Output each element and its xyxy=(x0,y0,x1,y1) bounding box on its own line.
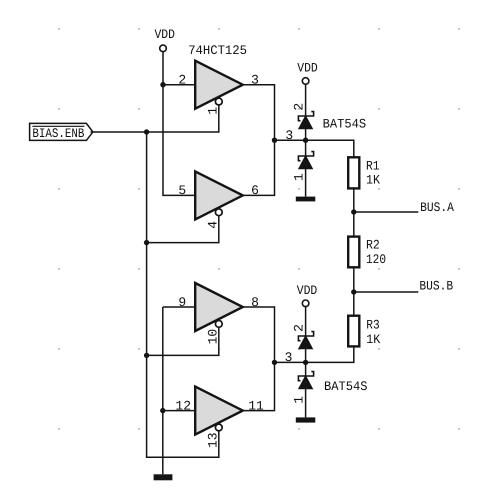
svg-text:12: 12 xyxy=(175,398,191,413)
svg-text:R2: R2 xyxy=(366,238,380,253)
svg-text:11: 11 xyxy=(248,398,264,413)
svg-text:BIAS.ENB: BIAS.ENB xyxy=(32,126,84,141)
svg-text:3: 3 xyxy=(251,73,259,88)
svg-text:8: 8 xyxy=(251,295,259,310)
svg-text:1: 1 xyxy=(292,396,307,404)
svg-text:1: 1 xyxy=(292,173,307,181)
svg-text:VDD: VDD xyxy=(297,60,318,75)
svg-text:BUS.B: BUS.B xyxy=(419,279,453,294)
svg-text:1K: 1K xyxy=(366,173,380,188)
svg-text:6: 6 xyxy=(251,183,259,198)
svg-text:1: 1 xyxy=(206,107,221,115)
svg-text:5: 5 xyxy=(178,183,186,198)
svg-text:10: 10 xyxy=(206,329,221,345)
svg-text:VDD: VDD xyxy=(297,283,318,298)
svg-text:3: 3 xyxy=(285,350,293,365)
svg-text:3: 3 xyxy=(285,128,293,143)
svg-text:9: 9 xyxy=(178,295,186,310)
svg-text:2: 2 xyxy=(292,324,307,332)
svg-text:120: 120 xyxy=(366,252,386,267)
svg-text:4: 4 xyxy=(206,221,221,229)
svg-text:74HCT125: 74HCT125 xyxy=(188,43,247,58)
svg-text:2: 2 xyxy=(292,103,307,111)
svg-text:13: 13 xyxy=(206,432,221,448)
svg-text:BUS.A: BUS.A xyxy=(420,200,454,215)
svg-text:BAT54S: BAT54S xyxy=(323,117,367,132)
svg-text:1K: 1K xyxy=(366,332,380,347)
svg-text:2: 2 xyxy=(178,73,186,88)
svg-text:BAT54S: BAT54S xyxy=(324,379,368,394)
svg-text:VDD: VDD xyxy=(154,27,175,42)
svg-text:R1: R1 xyxy=(366,159,380,174)
svg-text:R3: R3 xyxy=(366,317,380,332)
